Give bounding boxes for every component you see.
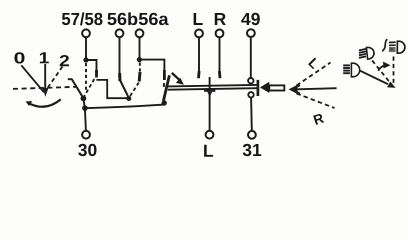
terminal R label [215, 13, 226, 25]
headlamp symbol 3 D shape [397, 41, 405, 53]
contact circle below shaft [248, 92, 253, 97]
headlamp symbol 1 (hatched) lines [359, 49, 366, 58]
junction dot V1 wiper point [81, 96, 87, 102]
wire 56b down [119, 38, 121, 74]
headlamp symbol 2 (main beam) lines [343, 65, 350, 73]
wire down to terminal 30 [85, 108, 86, 131]
junction dot bus left [82, 105, 88, 111]
wire L down [198, 38, 200, 72]
terminal 57/58 label [62, 12, 103, 25]
terminal L circle [195, 30, 203, 38]
contact circle above shaft [248, 78, 253, 83]
shaft lower line [168, 88, 257, 90]
terminal 56a circle [136, 29, 144, 37]
junction dot 56a [137, 57, 142, 62]
lever fan: flash arrow (solid, arrowhead left) [293, 88, 337, 89]
terminal L (bottom) circle [206, 131, 214, 139]
push knob arrowhead [260, 82, 269, 93]
wire down to terminal 31 [250, 98, 253, 131]
terminal 49 label [241, 13, 260, 25]
headlamp symbol 3 flick [382, 39, 387, 51]
dashed wire below 57/58 junction [85, 63, 87, 93]
junction dot V2 wiper point [126, 96, 131, 101]
fixed contact L tip [197, 71, 200, 78]
label 1 [40, 52, 49, 63]
wire 57/58 down [85, 38, 87, 60]
lever fan: dashed ray R [297, 94, 335, 109]
rotation arc with arrowhead [28, 99, 61, 106]
headlamp symbol 2 D shape [351, 63, 359, 77]
label 0 [14, 52, 24, 63]
fixed contact 56a-step tip [163, 70, 166, 80]
actuation arrow at shaft left end [172, 73, 180, 80]
rotary switch position ray 0 (solid) [21, 65, 44, 92]
push knob rod [269, 85, 284, 90]
terminal R circle [216, 30, 224, 38]
shaft end cap bar [257, 80, 260, 96]
label 2 [60, 55, 69, 66]
label R (rotated) [313, 113, 324, 125]
knob fan: dashed ray vertical [393, 57, 395, 87]
rotary switch position ray 2 (dashed) [48, 67, 63, 89]
wire step 56a to fixed contact [139, 60, 164, 71]
terminal 49 circle [247, 29, 255, 37]
knob fan: rotation arrowhead [383, 62, 391, 69]
contact V1 fixed stub [68, 78, 72, 80]
knob fan: solid ray with arrowhead to pivot [360, 71, 388, 84]
turn signal wiper wire [209, 77, 211, 131]
fixed contact R tip [218, 71, 221, 78]
knob fan: dashed ray middle [372, 61, 392, 86]
fixed contact A tip [95, 70, 98, 78]
junction dot 57/58 [83, 57, 88, 62]
terminal 30 circle [82, 131, 90, 139]
rotary switch position ray 1 (solid vertical) [44, 64, 46, 89]
wire 49 down [250, 37, 252, 78]
terminal 56b circle [116, 29, 124, 37]
wiper contact plate on shaft [204, 90, 215, 92]
contact 56a moving tip (thick) [138, 72, 142, 82]
terminal L (top) label [194, 13, 203, 25]
bus wire 30 [85, 105, 164, 109]
shaft upper line [168, 85, 257, 87]
terminal 31 circle [248, 131, 256, 139]
wiper slant bar on shaft [163, 75, 169, 101]
terminal L (bottom) label [204, 145, 213, 157]
contact V1 right arm (dashed alternate position) [84, 79, 95, 97]
terminal 56b label [107, 12, 137, 25]
contact V2 right arm (dashed) [129, 83, 139, 98]
rotary switch pointer arrowhead [42, 88, 48, 97]
terminal 30 label [78, 144, 96, 156]
mechanical link dashed line to contact block [13, 87, 77, 89]
wire R down [219, 38, 221, 72]
wire 56a down [139, 38, 141, 60]
headlamp symbol 1 D shape [366, 47, 374, 59]
knob fan: rotation arrow tail [378, 66, 383, 71]
dashed wire below 56a junction [139, 63, 141, 73]
wiper arrowhead [207, 92, 212, 97]
headlamp symbol 3 lines [389, 41, 396, 43]
label L (rotated) [308, 57, 320, 69]
dash below 56a-step tip [163, 83, 165, 87]
wire V1 point to bus [83, 98, 84, 108]
terminal 31 label [243, 144, 262, 156]
headlamp symbol 3 smudge [389, 47, 396, 52]
contact V2 left arm [120, 81, 129, 99]
lever fan: dashed ray L [297, 63, 331, 86]
terminal 57/58 circle [82, 29, 90, 37]
fixed contact 56b tip [118, 73, 121, 81]
routed trace to V2 point [96, 80, 128, 98]
junction dot slant bar to bus [162, 100, 167, 105]
wire step to fixed contact A [86, 60, 97, 71]
terminal 56a label [139, 13, 169, 25]
contact V1 left arm [72, 79, 84, 98]
